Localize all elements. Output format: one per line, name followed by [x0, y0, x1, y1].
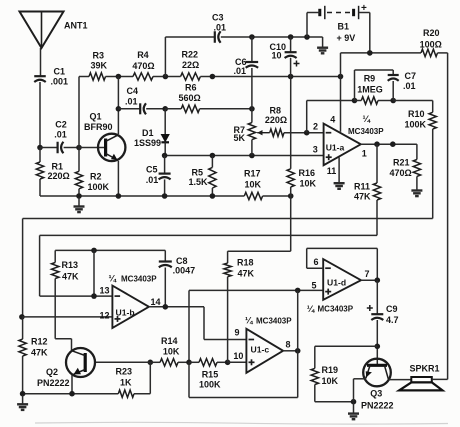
svg-text:100K: 100K	[199, 380, 221, 390]
plus sign U1-d	[325, 291, 331, 293]
svg-text:C9: C9	[386, 304, 398, 314]
wire C9 bottom lead	[376, 320, 378, 365]
svg-text:R2: R2	[90, 172, 102, 182]
wire C10 top lead	[290, 37, 292, 52]
svg-text:C8: C8	[176, 256, 188, 266]
node rail1 x212	[210, 74, 216, 80]
svg-text:R18: R18	[237, 258, 254, 268]
node Q2 base R23	[148, 360, 154, 366]
svg-text:10: 10	[233, 351, 243, 361]
wire C4 to D1 node	[146, 108, 165, 110]
svg-text:10: 10	[272, 50, 282, 60]
svg-text:R11: R11	[354, 181, 370, 191]
wire +9V rail	[341, 52, 422, 54]
svg-text:10K: 10K	[322, 376, 339, 386]
svg-text:PN2222: PN2222	[361, 400, 394, 410]
node output feedback	[390, 141, 396, 147]
node bottom rail R12	[20, 391, 26, 397]
wire R6 to C6 node	[200, 108, 252, 110]
capacitor C5	[159, 174, 171, 180]
battery B1	[320, 6, 359, 19]
node U1-c output	[295, 348, 301, 354]
resistor R11	[373, 183, 380, 200]
wire pin6 feedback box	[307, 248, 378, 280]
node R14 R15 junction	[186, 360, 192, 366]
wire R18 bottom lead	[227, 277, 229, 363]
wiper arrow R7	[257, 130, 270, 135]
wire C8 bottom lead	[164, 268, 166, 307]
ground top rail	[317, 42, 328, 53]
wire R17 to R16 node	[263, 195, 291, 197]
wire U1-a output row	[361, 143, 417, 145]
wire Q2 emitter lead	[71, 375, 73, 394]
node C2 left junction	[37, 145, 43, 151]
svg-text:47K: 47K	[31, 347, 48, 357]
node battery plus rail	[367, 50, 373, 56]
capacitor C1	[34, 76, 46, 82]
minus sign U1-c	[249, 339, 255, 341]
svg-text:470Ω: 470Ω	[390, 168, 412, 178]
svg-text:10K: 10K	[245, 179, 262, 189]
node rail1 C10 junction	[288, 74, 294, 80]
svg-text:ANT1: ANT1	[64, 21, 88, 31]
wire U1-d output	[361, 279, 377, 281]
wire pin12 row	[22, 316, 113, 318]
svg-text:47K: 47K	[238, 269, 255, 279]
resistor R6	[181, 105, 199, 112]
wire U1-c feedback vertical	[189, 290, 298, 397]
svg-text:39K: 39K	[91, 60, 108, 70]
svg-text:R20: R20	[423, 28, 440, 38]
wire R10 bottom to bias line	[432, 129, 434, 219]
wire U1-c output	[283, 350, 298, 352]
transistor Q1	[98, 134, 125, 161]
node gnd rail R2	[76, 193, 82, 199]
svg-text:R16: R16	[299, 168, 316, 178]
resistor R1	[36, 162, 43, 179]
node gnd rail Q1 emitter	[116, 193, 122, 199]
resistor R2	[75, 171, 82, 189]
node pin12 bias	[19, 314, 25, 320]
wire R7 bottom lead	[251, 140, 253, 156]
svg-text:R22: R22	[182, 50, 199, 60]
resistor R16	[287, 169, 294, 187]
svg-text:C1: C1	[54, 66, 66, 76]
capacitor C7	[388, 75, 399, 81]
svg-text:R12: R12	[31, 337, 48, 347]
wire U1-b output row	[149, 307, 247, 340]
wire C7 box	[355, 70, 394, 101]
wire pin10 row	[228, 361, 247, 363]
svg-text:.01: .01	[54, 129, 67, 139]
wire R9 row to R10	[393, 100, 433, 102]
svg-text:10K: 10K	[300, 179, 317, 189]
wire R8 to pin2	[284, 132, 324, 134]
node R13 top junction	[91, 248, 97, 254]
capacitor C8	[159, 262, 172, 268]
wire R18 top lead	[227, 251, 229, 263]
wire R13 to Q2 collector	[55, 279, 71, 352]
node pin2 feedback	[304, 130, 310, 136]
svg-text:.01: .01	[403, 81, 416, 91]
capacitor C6	[246, 62, 259, 68]
wire pin11 ground lead	[338, 158, 340, 181]
wire speaker right	[432, 378, 448, 380]
wire R14 left lead	[150, 361, 160, 363]
node R7 bottom	[249, 153, 255, 159]
wire Q1 emitter	[117, 161, 119, 196]
svg-text:C5: C5	[146, 164, 158, 174]
wire ground rail	[40, 195, 244, 197]
svg-text:1MEG: 1MEG	[357, 85, 383, 95]
svg-text:12: 12	[100, 311, 110, 321]
svg-text:.01: .01	[146, 175, 159, 185]
svg-text:R4: R4	[137, 50, 149, 60]
svg-text:R9: R9	[364, 74, 376, 84]
node R9 right	[390, 98, 396, 104]
svg-text:U1-b: U1-b	[116, 307, 135, 317]
svg-text:1SS99: 1SS99	[134, 138, 161, 148]
svg-text:4: 4	[330, 115, 335, 125]
svg-text:1: 1	[362, 148, 367, 158]
capacitor C3	[215, 31, 221, 43]
op-amp U1-c	[246, 329, 283, 373]
wire D1 bottom lead	[164, 142, 166, 155]
svg-text:BFR90: BFR90	[84, 122, 113, 132]
wire R11 top lead	[376, 144, 378, 183]
svg-text:D1: D1	[142, 128, 154, 138]
minus sign U1-a	[326, 132, 332, 134]
wire R13 top wire	[55, 249, 165, 251]
svg-text:10K: 10K	[163, 346, 180, 356]
ground pin 11	[334, 180, 345, 189]
wire C10 bottom lead	[290, 58, 292, 77]
wire R14 right lead	[178, 361, 189, 363]
op-amp U1-a	[324, 124, 361, 166]
svg-text:+ 9V: + 9V	[337, 33, 356, 43]
wire R2 top lead	[78, 148, 80, 172]
resistor R5	[209, 167, 216, 188]
node pin13	[91, 293, 97, 299]
svg-text:R17: R17	[244, 168, 261, 178]
node R5 top	[210, 153, 216, 159]
wire top rail right of C3	[221, 36, 323, 38]
svg-text:U1-d: U1-d	[327, 278, 346, 288]
svg-text:R5: R5	[192, 168, 204, 178]
resistor R9	[361, 97, 378, 104]
wire D1 top lead	[164, 109, 166, 135]
svg-text:C4: C4	[127, 86, 139, 96]
node rail1 x165	[163, 74, 169, 80]
node C6 bottom	[249, 106, 255, 112]
wire pin13 feedback vertical	[93, 250, 95, 296]
resistor R7	[248, 123, 255, 140]
svg-text:MC3403P: MC3403P	[256, 316, 292, 325]
svg-text:SPKR1: SPKR1	[410, 364, 440, 374]
svg-text:4.7: 4.7	[386, 315, 399, 325]
node gnd rail C5	[162, 193, 168, 199]
svg-text:.01: .01	[125, 97, 138, 107]
svg-text:Q3: Q3	[370, 388, 382, 398]
wire R21 bottom lead	[416, 176, 418, 187]
svg-text:100Ω: 100Ω	[420, 39, 442, 49]
resistor R10	[429, 112, 436, 129]
minus sign U1-b	[115, 295, 121, 297]
resistor R19	[311, 368, 318, 384]
wire L1 vertical to R12	[22, 317, 24, 339]
wire battery plus lead	[359, 13, 370, 53]
svg-text:22Ω: 22Ω	[182, 60, 199, 70]
svg-text:220Ω: 220Ω	[265, 115, 287, 125]
wire C1 to base row	[39, 82, 41, 148]
op-amp U1-b	[112, 286, 148, 328]
svg-text:3: 3	[313, 145, 318, 155]
svg-text:9: 9	[235, 328, 240, 338]
wire R16 bottom to R18 corner	[228, 187, 291, 251]
node Q3 emitter ground	[351, 399, 357, 405]
svg-text:47K: 47K	[62, 272, 79, 282]
wire R19 top wire	[315, 345, 378, 347]
node R9 left	[352, 98, 358, 104]
svg-text:220Ω: 220Ω	[48, 171, 70, 181]
svg-text:1.5K: 1.5K	[189, 177, 209, 187]
node Q1 collector rail	[116, 74, 122, 80]
svg-text:R15: R15	[202, 369, 219, 379]
svg-text:.0047: .0047	[173, 266, 196, 276]
resistor R14	[160, 359, 178, 366]
ground main rail	[74, 198, 85, 213]
capacitor C4	[140, 103, 146, 114]
wire R5 top lead	[211, 156, 213, 168]
node U1-d output	[375, 277, 381, 283]
resistor R18	[224, 263, 231, 277]
antenna ANT1	[20, 12, 64, 49]
node output R11	[374, 141, 380, 147]
svg-text:470Ω: 470Ω	[132, 61, 154, 71]
svg-text:5K: 5K	[234, 133, 246, 143]
resistor R3	[89, 73, 106, 80]
svg-text:R6: R6	[185, 83, 197, 93]
resistor R23	[118, 390, 134, 397]
ground R21	[411, 187, 422, 196]
resistor R20	[421, 49, 438, 56]
wire C8 top lead	[164, 250, 166, 261]
wire R7 top lead	[251, 109, 253, 123]
svg-text:R14: R14	[161, 336, 178, 346]
node R16 bottom	[288, 193, 294, 199]
wire R22 to supply node	[200, 76, 340, 78]
wire R5 bottom lead	[211, 188, 213, 196]
svg-text:Q1: Q1	[90, 111, 102, 121]
wire top rail left of C3	[165, 36, 214, 38]
svg-text:.001: .001	[51, 77, 69, 87]
wire pin2 to R9 row	[307, 101, 355, 133]
node rail1 +9V junction	[338, 74, 344, 80]
node U1-b output C8	[163, 304, 169, 310]
node R15 R18 junction	[225, 360, 231, 366]
wire bias line L1	[23, 219, 433, 317]
svg-text:R21: R21	[393, 158, 410, 168]
wire R15 leads	[189, 361, 228, 363]
svg-text:R10: R10	[408, 109, 425, 119]
resistor R8	[270, 129, 284, 136]
node C6 top	[249, 34, 255, 40]
svg-text:R19: R19	[322, 365, 339, 375]
svg-text:U1-c: U1-c	[251, 345, 270, 355]
svg-text:MC3403P: MC3403P	[121, 275, 157, 284]
resistor R17	[244, 192, 262, 199]
svg-text:R13: R13	[62, 260, 79, 270]
svg-text:MC3403P: MC3403P	[318, 305, 354, 314]
ground Q3	[348, 403, 359, 420]
ground bottom rail	[17, 395, 28, 410]
svg-text:6: 6	[314, 257, 319, 267]
transistor Q2	[66, 348, 95, 377]
wire R3 vertical from base node	[78, 77, 80, 148]
wire R23 to base node	[134, 362, 150, 393]
plus sign U1-b	[115, 318, 121, 320]
wire Q1 collector	[117, 77, 119, 135]
wire R21 top lead	[416, 144, 418, 159]
svg-text:13: 13	[100, 286, 110, 296]
resistor R4	[133, 73, 153, 80]
minus sign U1-d	[325, 267, 331, 269]
wire R10 top lead	[432, 101, 434, 113]
wire C6 bottom lead	[251, 68, 253, 109]
wire collector to C4	[118, 108, 140, 110]
capacitor C9	[367, 305, 384, 320]
wire +9V down to pin4	[340, 53, 342, 132]
wire D1 row to R6	[165, 108, 181, 110]
svg-text:560Ω: 560Ω	[179, 93, 201, 103]
wire bottom rail left	[23, 393, 119, 395]
node gnd rail R5	[210, 193, 216, 199]
svg-text:.01: .01	[214, 23, 227, 33]
wire node to C2	[40, 147, 57, 149]
wire R12 bottom lead	[22, 356, 24, 394]
node pin3 row left	[162, 153, 168, 159]
wire R19 bottom lead	[315, 385, 354, 402]
svg-text:R1: R1	[52, 161, 64, 171]
wire R3 to collector node	[106, 76, 134, 78]
plus sign U1-a	[326, 156, 332, 158]
wire R16 top lead	[290, 77, 292, 169]
svg-text:C3: C3	[212, 13, 224, 23]
svg-text:PN2222: PN2222	[37, 378, 70, 388]
wire battery minus lead	[307, 13, 320, 38]
wire rail to R3	[79, 76, 89, 78]
wire x165 vertical to top rail	[164, 37, 166, 77]
capacitor C10	[285, 52, 300, 66]
node C10 top	[288, 34, 294, 40]
resistor R22	[181, 73, 201, 80]
wire Q3 emitter lead	[354, 379, 366, 402]
resistor R21	[413, 160, 420, 177]
node D1 top	[162, 106, 168, 112]
wire pin3 row	[165, 155, 324, 157]
wire pin5 row	[189, 290, 323, 362]
speaker SPKR1	[399, 377, 442, 390]
svg-text:R3: R3	[93, 51, 105, 61]
svg-text:.01: .01	[234, 66, 247, 76]
svg-text:11: 11	[327, 166, 337, 176]
node Q1 base junction	[76, 145, 82, 151]
wire Q2 base to node	[95, 361, 150, 363]
wire antenna to C1	[40, 48, 42, 76]
wire C7 bottom lead	[392, 81, 394, 101]
capacitor C2	[58, 142, 64, 154]
wire R11 bottom lead	[376, 200, 378, 235]
resistor R15	[199, 359, 217, 366]
svg-text:U1-a: U1-a	[326, 143, 345, 153]
svg-text:8: 8	[286, 340, 291, 350]
wire top rail ground stub	[322, 37, 324, 42]
resistor R12	[19, 339, 26, 356]
wire base node to Q1	[79, 147, 105, 149]
wire C5 bottom lead	[164, 179, 166, 196]
wire C9 top lead	[376, 280, 378, 314]
wire R19 top lead	[314, 346, 316, 368]
node battery minus junction	[304, 34, 310, 40]
svg-text:MC3403P: MC3403P	[348, 127, 384, 136]
op-amp U1-d	[323, 259, 361, 300]
svg-text:100K: 100K	[405, 119, 427, 129]
svg-text:2: 2	[313, 122, 318, 132]
wire R4 to C3 node	[153, 76, 181, 78]
svg-text:1K: 1K	[120, 378, 132, 388]
node C4 row collector	[116, 106, 122, 112]
svg-text:7: 7	[365, 269, 370, 279]
wire feedback line L2	[40, 235, 377, 296]
wire pin13 row	[40, 295, 113, 297]
svg-text:R23: R23	[116, 366, 133, 376]
svg-text:47K: 47K	[354, 191, 371, 201]
svg-text:C7: C7	[405, 71, 417, 81]
wire R2 bottom lead	[78, 189, 80, 196]
wire R20 to speaker line	[438, 53, 448, 380]
wire C5 top lead	[164, 156, 166, 174]
svg-text:100K: 100K	[88, 182, 110, 192]
resistor R13	[52, 263, 59, 279]
svg-text:B1: B1	[338, 22, 350, 32]
svg-text:C2: C2	[55, 120, 67, 130]
wire R9 leads	[355, 100, 394, 102]
wire C6 top lead	[251, 37, 253, 62]
wire C2 to Q1 base node	[64, 147, 79, 149]
svg-text:R8: R8	[270, 105, 282, 115]
node Q2 emitter rail	[69, 391, 75, 397]
wire R1 bottom lead	[39, 179, 41, 196]
svg-text:Q2: Q2	[46, 367, 58, 377]
transistor Q3	[363, 359, 391, 387]
svg-text:14: 14	[151, 297, 161, 307]
node pin5 feedback	[295, 288, 301, 294]
wire R1 top lead	[39, 148, 41, 163]
svg-text:5: 5	[312, 281, 317, 291]
plus sign U1-c	[249, 361, 255, 363]
wire R13 top lead	[54, 250, 56, 262]
node Q3 base R19	[375, 344, 381, 350]
diode D1	[161, 135, 169, 143]
wire Q3 collector lead	[389, 379, 412, 381]
